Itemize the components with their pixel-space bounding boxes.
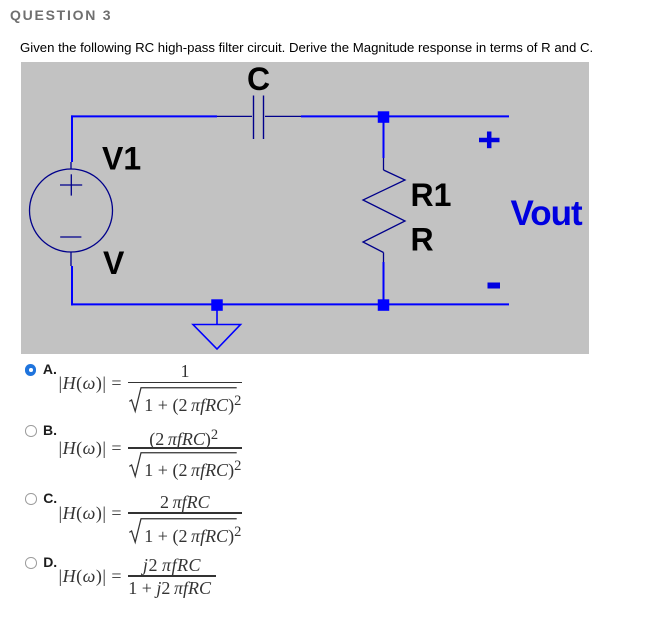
label minus terminal bbox=[488, 283, 501, 289]
capacitor C right lead bbox=[265, 115, 301, 117]
svg-text:R: R bbox=[411, 222, 434, 258]
capacitor C left lead bbox=[217, 115, 252, 117]
node junction bottom right bbox=[378, 299, 390, 311]
wire resistor bottom stub bbox=[383, 262, 385, 304]
voltage source V1 circle bbox=[30, 169, 113, 252]
svg-text:C: C bbox=[247, 62, 270, 97]
option C bbox=[25, 493, 37, 505]
node junction top right bbox=[378, 111, 390, 123]
voltage source V1 plus mark bbox=[70, 174, 72, 195]
wire resistor top stub bbox=[383, 122, 385, 158]
capacitor C plates bbox=[253, 96, 255, 140]
resistor R1 top lead bbox=[383, 158, 385, 170]
resistor R1 zigzag body bbox=[363, 170, 405, 253]
wire left vertical top bbox=[71, 115, 73, 162]
voltage source V1 bottom lead bbox=[70, 252, 72, 266]
voltage source V1 minus mark bbox=[60, 236, 81, 238]
formula D bbox=[59, 575, 123, 577]
wire top rail right segment bbox=[301, 115, 509, 117]
resistor R1 bottom lead bbox=[383, 253, 385, 263]
formula C bbox=[59, 512, 123, 514]
svg-text:V: V bbox=[103, 245, 125, 281]
svg-text:V1: V1 bbox=[102, 141, 141, 177]
option D bbox=[25, 557, 37, 569]
ground stub bbox=[216, 310, 218, 325]
label plus terminal bbox=[479, 138, 500, 143]
formula B bbox=[59, 447, 123, 449]
wire top rail left segment bbox=[71, 115, 217, 117]
ground triangle bbox=[193, 325, 241, 350]
node junction ground bbox=[211, 299, 223, 311]
formula A bbox=[59, 382, 123, 384]
svg-text:R1: R1 bbox=[411, 177, 452, 213]
wire left vertical bottom bbox=[71, 266, 73, 305]
option A bbox=[25, 364, 37, 376]
option B bbox=[25, 425, 37, 437]
wire bottom rail bbox=[71, 303, 509, 305]
voltage source V1 top lead bbox=[70, 162, 72, 170]
svg-text:Vout: Vout bbox=[511, 194, 584, 233]
